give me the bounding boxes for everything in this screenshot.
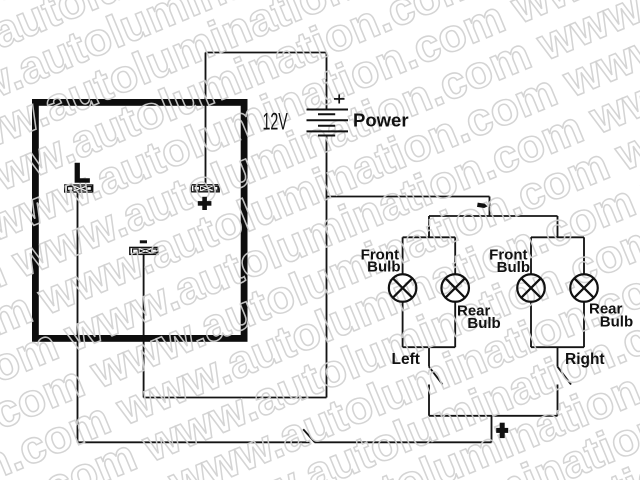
bulb front-right [517, 274, 545, 302]
switch left stub [428, 347, 430, 367]
wire relay L lead vertical [77, 193, 79, 443]
wire left switch lower [428, 385, 430, 416]
wire left loop left side upper [402, 237, 404, 274]
wire left loop bottom [403, 346, 456, 348]
wire right loop left side upper [530, 237, 532, 274]
relay terminal - connector [130, 247, 158, 254]
bulb front-left [389, 274, 417, 302]
wire lamp bus horizontal [429, 215, 558, 217]
wire right loop tap [557, 216, 559, 237]
switch right stub [557, 347, 559, 367]
wire center drop [491, 416, 493, 443]
svg-text:Bulb: Bulb [467, 315, 500, 332]
relay terminal L connector [65, 185, 93, 192]
wire right loop right side upper [583, 237, 585, 274]
wire battery negative horizontal to lamp feed [327, 196, 490, 198]
svg-text:Right: Right [565, 351, 605, 368]
svg-text:Power: Power [353, 110, 409, 131]
svg-text:12V: 12V [263, 109, 289, 136]
wire relay minus horizontal [144, 397, 327, 399]
relay terminal + sign [198, 197, 212, 210]
wire right loop left side lower [530, 302, 532, 347]
inline connector on lamp feed [477, 203, 488, 209]
label Front Bulb right [489, 247, 530, 276]
wire relay minus vertical from - connector [143, 255, 145, 398]
battery B1 plates [307, 110, 349, 136]
wire bottom long rail right segment [315, 441, 492, 443]
svg-text:Bulb: Bulb [600, 314, 633, 331]
label Rear Bulb left [457, 302, 501, 332]
svg-text:L: L [74, 158, 91, 188]
switch bottom blade [303, 429, 315, 442]
relay terminal - sign [140, 240, 147, 243]
bulb rear-left [441, 274, 469, 302]
svg-text:Left: Left [392, 351, 420, 368]
switch left blade [429, 367, 443, 385]
wire left loop left side lower [402, 302, 404, 347]
wire left loop right side lower [454, 302, 456, 347]
bulb rear-right [570, 274, 598, 302]
relay box [35, 102, 244, 338]
switch right blade [558, 367, 572, 385]
wire bottom long rail left segment [78, 441, 311, 443]
label Front Bulb left [361, 247, 401, 276]
wire battery negative long vertical down [326, 197, 328, 398]
battery plus mark [334, 94, 345, 103]
wire battery positive lead [326, 53, 328, 110]
wire top horizontal from relay + riser to battery top [206, 52, 327, 54]
wire bottom rail between switches [429, 415, 558, 417]
wire right switch lower [557, 385, 559, 416]
relay terminal + connector [191, 185, 219, 192]
bottom plus sign [496, 423, 508, 438]
wire relay + riser (x=205.5 from top wire down to + connector) [205, 53, 207, 186]
wire left loop right side upper [454, 237, 456, 274]
svg-text:Bulb: Bulb [367, 259, 400, 276]
label Rear Bulb right [589, 301, 633, 331]
wire lamp feed drop to bus [489, 197, 491, 217]
wire right loop bottom [531, 346, 584, 348]
wire left loop tap [428, 216, 430, 237]
svg-text:Bulb: Bulb [497, 259, 530, 276]
wire right loop right side lower [583, 302, 585, 347]
wire left loop top [403, 236, 456, 238]
wire battery negative lead down [326, 136, 328, 197]
wire right loop top [531, 236, 584, 238]
